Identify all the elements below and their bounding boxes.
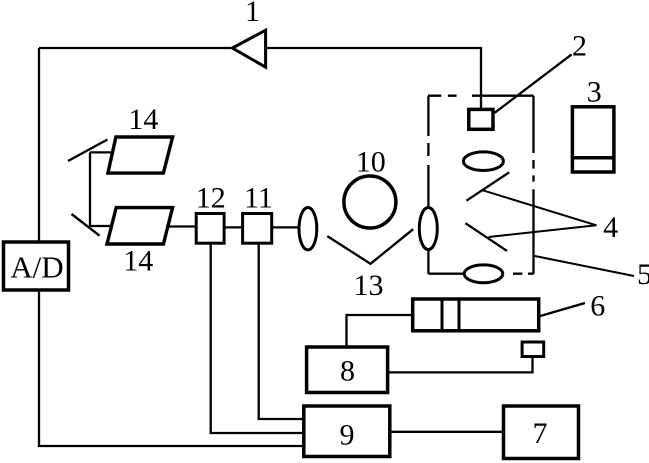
svg-text:1: 1 (245, 0, 260, 28)
connector box (522, 342, 544, 357)
wire box 9 to box 7 (390, 431, 504, 433)
amplifier 1 (232, 30, 265, 67)
svg-text:14: 14 (123, 245, 153, 278)
detector 2 (469, 109, 493, 129)
wire mirror to bottom beam splitter (90, 225, 113, 227)
box 3 (572, 107, 614, 172)
chamber 5 dash-dot bottom edge (428, 273, 533, 275)
wire laser to box 8 (347, 315, 413, 346)
beam splitter 14 bottom (107, 208, 173, 244)
laser 6 inner line b (458, 299, 461, 331)
A/D converter (4, 242, 69, 290)
leader lines 4 (482, 190, 596, 237)
chamber 5 dash-dot top edge (428, 95, 534, 97)
svg-text:3: 3 (587, 76, 602, 109)
wire top vertical at left (38, 48, 40, 241)
chamber 5 dash-dot right edge (532, 96, 534, 274)
laser 6 inner line a (441, 299, 444, 331)
lens right (419, 208, 437, 250)
mirror top (68, 140, 108, 162)
wire top-left horizontal (39, 47, 233, 49)
svg-text:13: 13 (354, 269, 384, 302)
chopper 10 (344, 176, 396, 228)
wire beam splitter to box 12 (166, 225, 196, 227)
box 9 (304, 406, 390, 457)
box 3 inner line (572, 156, 614, 160)
cell window ellipse top (463, 152, 503, 171)
wire 11 to lens (272, 226, 299, 228)
svg-text:11: 11 (244, 182, 273, 215)
svg-text:14: 14 (128, 103, 158, 136)
svg-text:9: 9 (340, 419, 355, 452)
mirror 4 upper (466, 172, 509, 200)
wire mirror to top beam splitter (90, 151, 113, 153)
mirror bottom (72, 214, 100, 236)
wire vertical between mirrors (89, 152, 91, 226)
svg-text:A/D: A/D (10, 250, 63, 285)
cell window ellipse bottom (464, 265, 503, 283)
leader line 6 (539, 303, 586, 317)
mirror 4 lower (465, 223, 507, 251)
chamber 5 dash-dot left edge (427, 96, 429, 274)
leader line 2 (495, 54, 572, 112)
wire from amplifier to detector (266, 48, 481, 110)
box 7 (504, 406, 579, 459)
svg-text:2: 2 (572, 30, 587, 63)
box 8 (307, 347, 388, 393)
wire box 8 to connector (388, 357, 533, 373)
lens left (299, 208, 317, 250)
wire from A/D down to box 9 (39, 292, 303, 446)
svg-text:6: 6 (590, 290, 605, 323)
box 12 (196, 214, 224, 244)
leader line 5 (535, 256, 634, 276)
box 11 (243, 214, 272, 244)
beam path 13 (327, 229, 413, 264)
svg-text:10: 10 (356, 146, 386, 179)
wire box 12 down to box 9 (211, 243, 304, 433)
svg-text:8: 8 (340, 354, 355, 387)
beam splitter 14 top (108, 137, 173, 173)
laser 6 (413, 299, 539, 331)
svg-text:4: 4 (603, 211, 618, 244)
svg-text:5: 5 (637, 258, 649, 291)
wire box 11 down to box 9 (259, 243, 304, 419)
svg-text:12: 12 (196, 182, 226, 215)
svg-text:7: 7 (533, 417, 548, 450)
wire 12 to 11 (224, 226, 243, 228)
